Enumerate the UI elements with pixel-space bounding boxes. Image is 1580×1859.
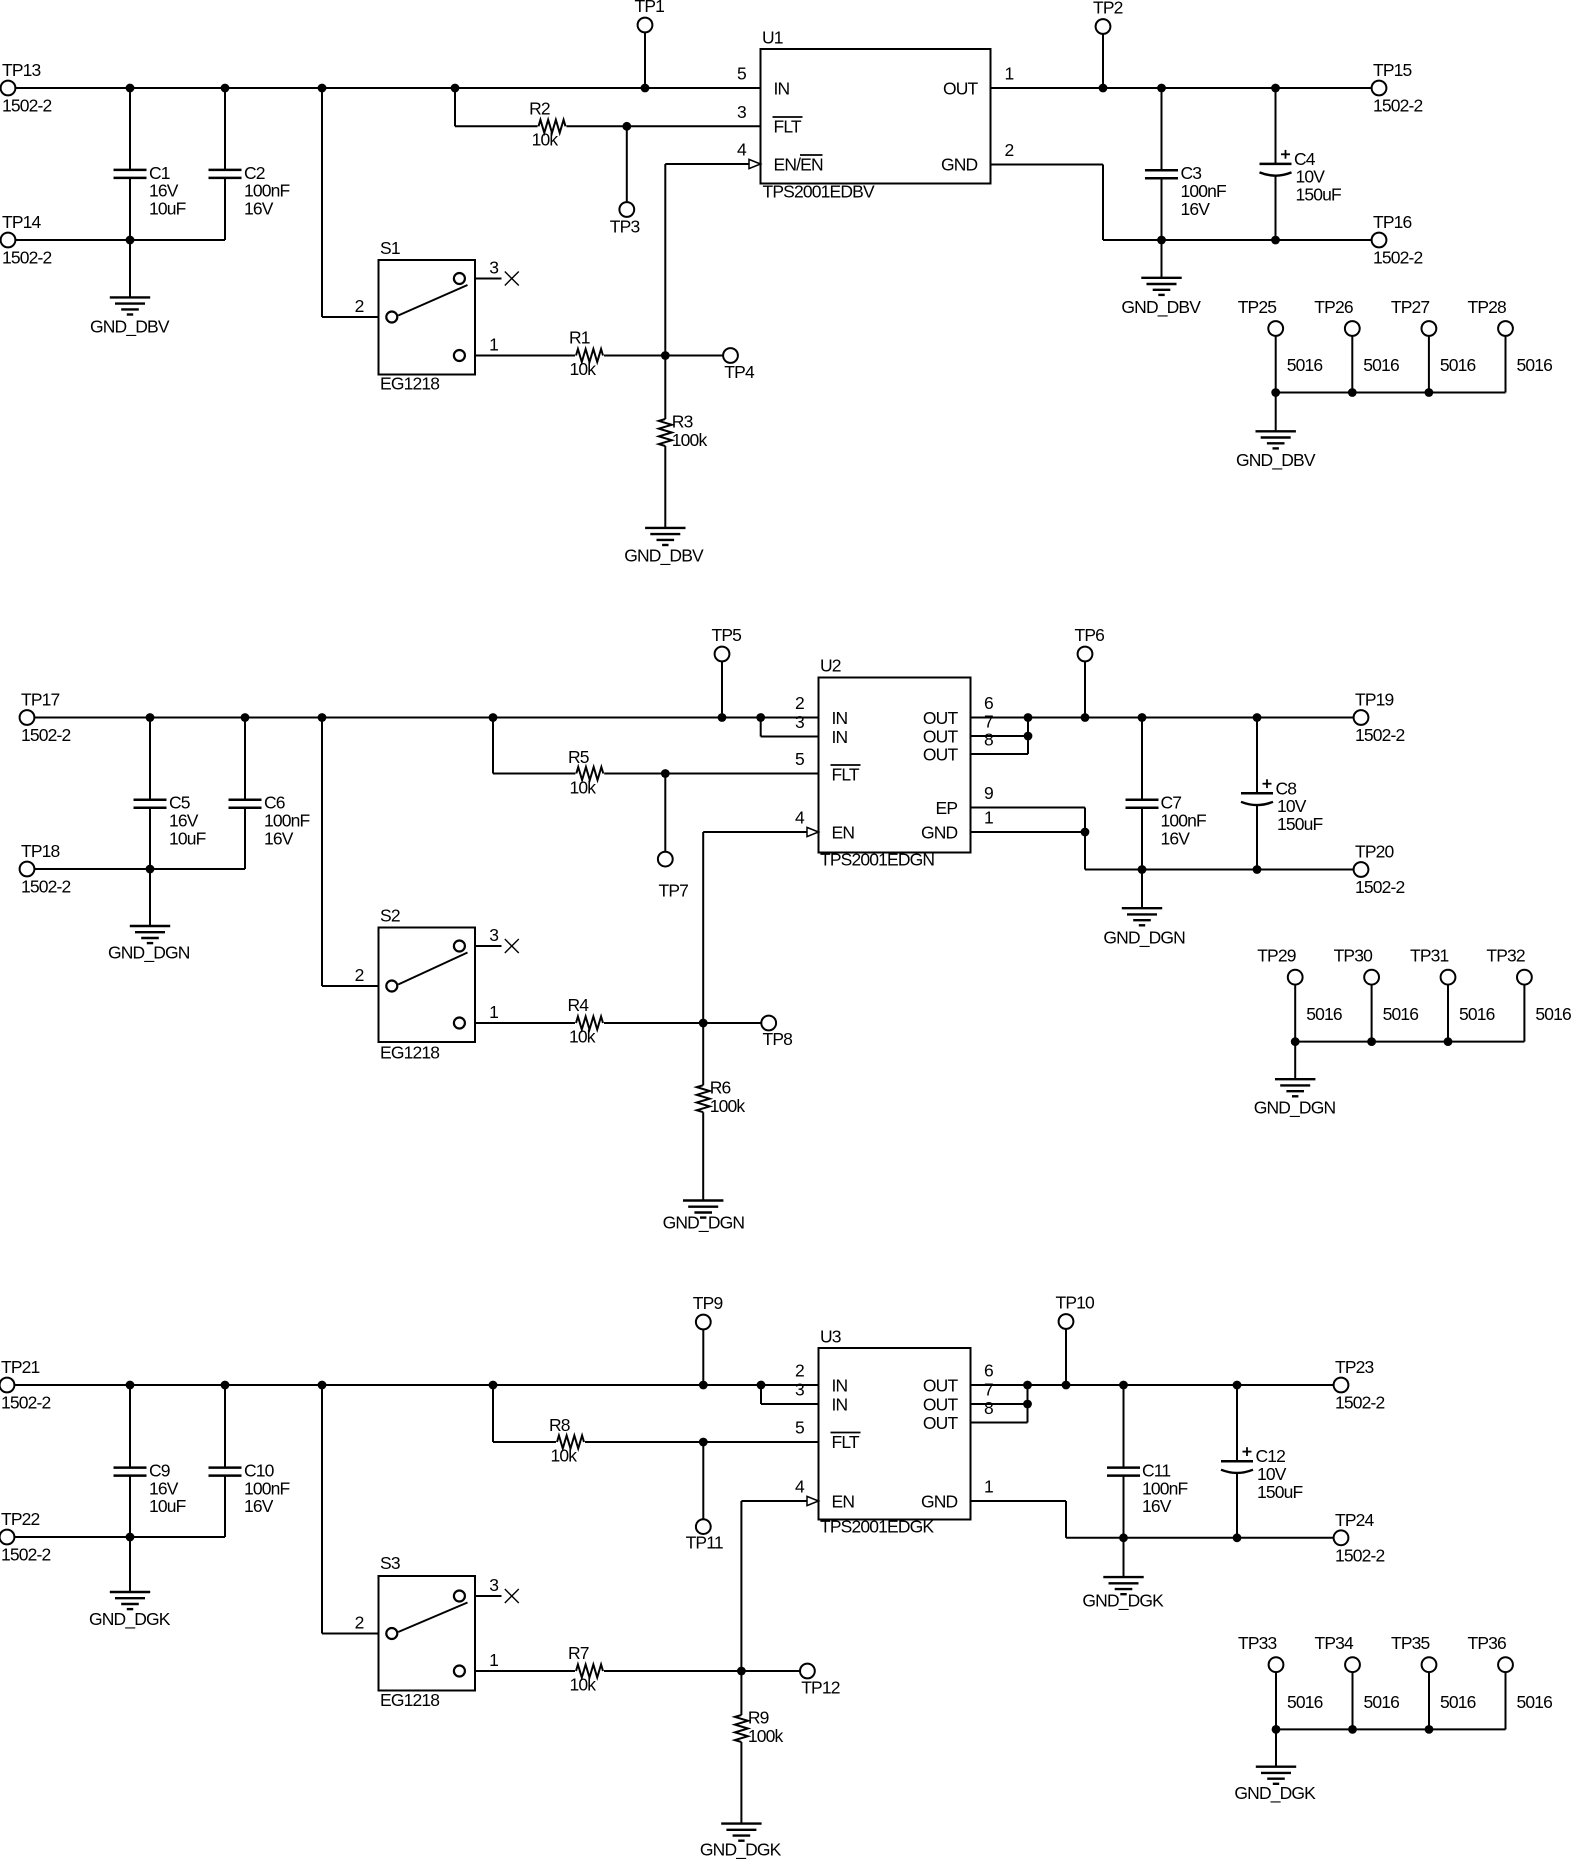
svg-text:4: 4 xyxy=(737,140,747,160)
wire U2 EP pin xyxy=(971,807,1086,809)
test point TP8 xyxy=(761,1016,776,1031)
wire R4 to node EN2 xyxy=(604,1022,703,1024)
wire R9 to GND_DGK xyxy=(740,1742,742,1824)
wire to R8 xyxy=(493,1441,556,1443)
svg-text:R3: R3 xyxy=(672,412,693,432)
wire to GND_DGN under C5 xyxy=(149,869,151,926)
test point TP18 xyxy=(20,862,35,877)
svg-text:2: 2 xyxy=(355,1613,364,1633)
svg-text:R8: R8 xyxy=(549,1415,570,1435)
junction S1 branch xyxy=(318,84,327,93)
no-connect X (S3 pin 3) xyxy=(505,1589,519,1603)
svg-text:6: 6 xyxy=(984,693,993,713)
svg-text:R1: R1 xyxy=(569,328,590,348)
svg-text:TP27: TP27 xyxy=(1391,297,1430,317)
svg-text:5016: 5016 xyxy=(1517,1692,1553,1712)
junction C1 bottom xyxy=(126,236,135,245)
svg-text:10k: 10k xyxy=(569,1027,596,1047)
wire to GND_DBV under C1 xyxy=(129,240,131,297)
junction TP34 rail xyxy=(1348,1725,1357,1734)
svg-text:1502-2: 1502-2 xyxy=(21,877,71,897)
svg-text:5: 5 xyxy=(795,1418,804,1438)
junction TP7 branch xyxy=(661,769,670,778)
wire S3 pin 3 stub xyxy=(475,1595,502,1597)
svg-text:S3: S3 xyxy=(380,1553,400,1573)
input arrow U1 pin 4 xyxy=(749,159,761,168)
wire R3 to GND_DBV xyxy=(664,446,666,528)
junction C9 bottom xyxy=(126,1533,135,1542)
svg-text:TPS2001EDGN: TPS2001EDGN xyxy=(820,850,934,870)
wire to U2 pin 3 xyxy=(761,736,819,738)
resistor R5 xyxy=(576,767,603,780)
svg-text:GND_DBV: GND_DBV xyxy=(624,545,704,566)
wire EN2 vertical xyxy=(702,832,704,1023)
svg-text:1502-2: 1502-2 xyxy=(1335,1393,1385,1413)
svg-text:R5: R5 xyxy=(568,747,589,767)
svg-text:5: 5 xyxy=(737,64,746,84)
wire bottom rail GND_DGN xyxy=(1085,869,1354,871)
wire C3 bottom lead xyxy=(1161,178,1163,240)
svg-text:TP34: TP34 xyxy=(1315,1633,1355,1653)
ground GND_DGN (C5) xyxy=(130,925,170,927)
junction C10 top xyxy=(221,1381,230,1390)
svg-text:TP18: TP18 xyxy=(21,841,60,861)
junction TP26 rail xyxy=(1348,388,1357,397)
capacitor C3 xyxy=(1145,169,1178,172)
test point TP11 xyxy=(696,1519,711,1534)
resistor R1 xyxy=(576,349,603,362)
resistor R6 xyxy=(697,1085,710,1112)
svg-text:100k: 100k xyxy=(672,430,708,450)
junction C4 bottom xyxy=(1271,236,1280,245)
svg-text:5016: 5016 xyxy=(1459,1004,1495,1024)
wire R2 to U1 FLT pin xyxy=(566,125,760,127)
test point TP10 xyxy=(1059,1314,1074,1329)
svg-text:16V: 16V xyxy=(1161,828,1191,848)
junction C8 bottom xyxy=(1253,865,1262,874)
junction TP35 rail xyxy=(1425,1725,1434,1734)
wire to GND_DGK under C11 xyxy=(1123,1538,1125,1577)
wire EN1 to R3 xyxy=(664,356,666,420)
test point TP23 xyxy=(1334,1378,1349,1393)
junction R8 branch xyxy=(489,1381,498,1390)
svg-text:R2: R2 xyxy=(529,98,550,118)
wire C2 top lead xyxy=(224,88,226,170)
svg-text:1502-2: 1502-2 xyxy=(1,1545,51,1565)
wire R1 to node EN1 xyxy=(604,355,665,357)
svg-text:TP17: TP17 xyxy=(21,690,60,710)
ground GND_DGK (C9) xyxy=(110,1591,150,1593)
wire EN3 to R9 xyxy=(740,1671,742,1715)
svg-text:GND_DGN: GND_DGN xyxy=(1103,928,1185,949)
test point TP14 xyxy=(1,233,16,248)
svg-text:16V: 16V xyxy=(244,1496,274,1516)
svg-text:TP11: TP11 xyxy=(686,1533,723,1553)
svg-text:TP13: TP13 xyxy=(2,60,41,80)
svg-text:GND_DGN: GND_DGN xyxy=(1254,1097,1336,1118)
svg-text:GND_DGN: GND_DGN xyxy=(663,1213,745,1234)
wire TP27 drop xyxy=(1428,336,1430,393)
svg-text:EG1218: EG1218 xyxy=(380,1043,439,1063)
svg-text:100k: 100k xyxy=(748,1726,784,1746)
svg-text:100k: 100k xyxy=(710,1096,746,1116)
svg-text:3: 3 xyxy=(489,925,498,945)
overline FLT (U2) xyxy=(831,764,861,766)
svg-text:TP23: TP23 xyxy=(1335,1357,1374,1377)
junction S2 branch xyxy=(318,713,327,722)
wire EN2 to R6 xyxy=(702,1023,704,1085)
svg-text:TP8: TP8 xyxy=(763,1029,793,1049)
test point TP21 xyxy=(0,1378,14,1393)
wire C8 bottom lead xyxy=(1256,806,1258,870)
wire S3 pin1 to R7 xyxy=(475,1670,575,1672)
wire C4 top lead xyxy=(1275,88,1277,164)
svg-text:EN: EN xyxy=(832,823,855,843)
resistor R2 xyxy=(539,120,566,133)
svg-text:S1: S1 xyxy=(380,238,400,258)
test point TP30 xyxy=(1364,970,1379,985)
svg-text:1502-2: 1502-2 xyxy=(1,1393,51,1413)
junction TP1 xyxy=(641,84,650,93)
svg-text:IN: IN xyxy=(832,1376,848,1396)
wire to S1 pin 2 xyxy=(322,316,379,318)
junction C11 top xyxy=(1119,1381,1128,1390)
svg-text:GND_DBV: GND_DBV xyxy=(1236,450,1316,471)
svg-text:EN: EN xyxy=(832,1492,855,1512)
wire C9 bottom lead xyxy=(129,1476,131,1537)
wire R8 to U3 FLT pin xyxy=(585,1441,819,1443)
svg-text:1: 1 xyxy=(984,808,993,828)
ground GND_DBV (R3) xyxy=(645,527,685,529)
svg-text:GND: GND xyxy=(941,155,978,175)
wire TP25-28 rail xyxy=(1276,392,1506,394)
capacitor C1 xyxy=(114,169,147,172)
svg-text:S2: S2 xyxy=(380,906,400,926)
wire TP9 drop xyxy=(702,1329,704,1385)
test point TP9 xyxy=(696,1315,711,1330)
svg-text:1502-2: 1502-2 xyxy=(2,248,52,268)
test point TP4 xyxy=(723,348,738,363)
junction TP31 rail xyxy=(1444,1037,1453,1046)
wire GND vertical (U3) xyxy=(1065,1501,1067,1538)
overline EN (U1) xyxy=(800,154,823,156)
wire U3 GND pin xyxy=(971,1500,1067,1502)
junction pin7 xyxy=(1024,732,1033,741)
svg-text:TP6: TP6 xyxy=(1075,625,1105,645)
IC U3 TPS2001EDGK box xyxy=(819,1348,971,1520)
svg-text:10uF: 10uF xyxy=(169,828,206,848)
wire TP7 drop xyxy=(664,774,666,852)
svg-text:TP33: TP33 xyxy=(1238,1633,1277,1653)
junction C6 top xyxy=(241,713,250,722)
junction pin7/8 top xyxy=(1024,713,1033,722)
svg-text:R9: R9 xyxy=(748,1708,769,1728)
junction TP33 rail xyxy=(1272,1725,1281,1734)
wire C10 top lead xyxy=(224,1385,226,1468)
capacitor C10 xyxy=(209,1466,242,1469)
IC U2 TPS2001EDGN box xyxy=(819,678,971,853)
wire TP11 drop xyxy=(702,1442,704,1519)
switch S1 xyxy=(379,260,476,375)
wire to U3 EN pin xyxy=(741,1500,807,1502)
wire C12 top lead xyxy=(1236,1385,1238,1461)
junction TP11 branch xyxy=(699,1438,708,1447)
svg-text:TP19: TP19 xyxy=(1355,690,1394,710)
svg-text:16V: 16V xyxy=(244,199,274,219)
svg-text:10k: 10k xyxy=(570,778,597,798)
svg-text:OUT: OUT xyxy=(923,745,959,765)
svg-text:TP9: TP9 xyxy=(693,1293,723,1313)
wire to TP8 xyxy=(703,1022,761,1024)
junction U2 pin3 branch xyxy=(756,713,765,722)
wire rail to GND_DGN xyxy=(1294,1042,1296,1080)
wire TP25 drop xyxy=(1275,336,1277,393)
svg-text:U3: U3 xyxy=(820,1327,841,1347)
wire EP/GND vertical xyxy=(1084,808,1086,870)
svg-text:GND_DGK: GND_DGK xyxy=(1234,1783,1316,1804)
junction C12 bottom xyxy=(1233,1533,1242,1542)
test point TP5 xyxy=(715,647,730,662)
wire C7 top lead xyxy=(1141,718,1143,800)
test point TP1 xyxy=(638,18,653,33)
wire TP28 drop xyxy=(1505,336,1507,393)
junction node EN1 xyxy=(661,351,670,360)
svg-text:1502-2: 1502-2 xyxy=(2,96,52,116)
svg-text:EN/EN: EN/EN xyxy=(774,155,823,175)
svg-text:TP22: TP22 xyxy=(1,1509,40,1529)
svg-text:IN: IN xyxy=(832,727,848,747)
wire TP34 drop xyxy=(1352,1672,1354,1729)
junction C4 top xyxy=(1271,84,1280,93)
capacitor C11 xyxy=(1107,1466,1140,1469)
svg-text:TP15: TP15 xyxy=(1373,60,1412,80)
junction C5 bottom xyxy=(146,865,155,874)
test point TP28 xyxy=(1498,321,1513,336)
wire to U1 EN pin xyxy=(665,163,749,165)
junction C1 top xyxy=(126,84,135,93)
test point TP32 xyxy=(1517,970,1532,985)
test point TP25 xyxy=(1268,321,1283,336)
wire U3 pin3 branch vertical xyxy=(760,1385,762,1404)
junction TP27 rail xyxy=(1425,388,1434,397)
svg-text:TP7: TP7 xyxy=(659,880,689,900)
wire U1 GND pin xyxy=(991,164,1104,166)
test point TP3 xyxy=(619,202,634,217)
resistor R7 xyxy=(576,1665,603,1678)
test point TP13 xyxy=(1,81,16,96)
svg-text:TP10: TP10 xyxy=(1056,1293,1096,1313)
svg-text:TP4: TP4 xyxy=(724,362,755,382)
junction TP25 rail xyxy=(1271,388,1280,397)
junction C5 top xyxy=(146,713,155,722)
svg-text:TP1: TP1 xyxy=(635,0,665,16)
svg-text:OUT: OUT xyxy=(923,1376,959,1396)
svg-text:FLT: FLT xyxy=(774,116,802,136)
svg-text:10k: 10k xyxy=(551,1446,578,1466)
wire C8 top lead xyxy=(1256,718,1258,794)
resistor R4 xyxy=(576,1017,603,1030)
svg-text:5016: 5016 xyxy=(1306,1004,1342,1024)
wire C6 bottom lead xyxy=(244,808,246,869)
capacitor C6 xyxy=(229,798,262,801)
svg-text:5016: 5016 xyxy=(1287,1692,1323,1712)
svg-text:5016: 5016 xyxy=(1440,1692,1476,1712)
test point TP7 xyxy=(658,852,673,867)
ground GND_DGK (TP33 row) xyxy=(1256,1765,1296,1767)
no-connect X (S1 pin 3) xyxy=(505,272,519,286)
wire C1 bottom lead xyxy=(129,178,131,240)
svg-text:TP21: TP21 xyxy=(1,1357,40,1377)
svg-text:TP25: TP25 xyxy=(1238,297,1277,317)
overline FLT (U1) xyxy=(773,116,803,118)
switch S3 xyxy=(379,1576,476,1691)
svg-text:3: 3 xyxy=(489,1575,498,1595)
svg-text:OUT: OUT xyxy=(923,1395,959,1415)
svg-text:U1: U1 xyxy=(762,28,783,48)
ground GND_DGN (TP29 row) xyxy=(1275,1078,1315,1080)
svg-text:OUT: OUT xyxy=(923,1413,959,1433)
svg-text:TP26: TP26 xyxy=(1314,297,1353,317)
ground GND_DGN (C7) xyxy=(1122,907,1162,909)
svg-text:TP32: TP32 xyxy=(1486,946,1525,966)
svg-text:8: 8 xyxy=(984,1398,993,1418)
wire net OUT3 xyxy=(971,1384,1334,1386)
resistor R3 xyxy=(659,419,672,446)
junction U3 pin3 branch xyxy=(757,1381,766,1390)
wire EN3 vertical xyxy=(740,1501,742,1671)
svg-text:GND_DGK: GND_DGK xyxy=(1082,1591,1164,1612)
test point TP16 xyxy=(1372,233,1387,248)
wire pin7/8 vertical xyxy=(1027,718,1029,755)
wire S2 pin 3 stub xyxy=(475,945,502,947)
svg-text:1502-2: 1502-2 xyxy=(1373,248,1423,268)
wire to GND_DGK under C9 xyxy=(129,1537,131,1592)
svg-text:5016: 5016 xyxy=(1517,355,1553,375)
junction TP5 xyxy=(718,713,727,722)
wire to TP12 xyxy=(741,1670,800,1672)
svg-text:2: 2 xyxy=(795,693,804,713)
ground GND_DGN (R6) xyxy=(683,1199,723,1201)
wire R5 to U2 FLT pin xyxy=(604,773,818,775)
svg-text:GND_DGK: GND_DGK xyxy=(89,1609,171,1630)
junction pin7/8 top (U3) xyxy=(1023,1381,1032,1390)
junction TP10 xyxy=(1062,1381,1071,1390)
svg-text:5016: 5016 xyxy=(1287,355,1323,375)
svg-text:150uF: 150uF xyxy=(1277,814,1323,834)
junction C9 top xyxy=(126,1381,135,1390)
wire R7 to node EN3 xyxy=(604,1670,741,1672)
ground GND_DGK (C11) xyxy=(1103,1576,1143,1578)
svg-text:TP35: TP35 xyxy=(1391,1633,1430,1653)
test point TP26 xyxy=(1345,321,1360,336)
capacitor C2 xyxy=(209,169,242,172)
svg-text:4: 4 xyxy=(795,1477,805,1497)
svg-text:EP: EP xyxy=(936,798,958,818)
svg-text:OUT: OUT xyxy=(923,708,959,728)
capacitor C5 xyxy=(134,798,167,801)
svg-text:1502-2: 1502-2 xyxy=(1355,725,1405,745)
svg-text:1502-2: 1502-2 xyxy=(21,725,71,745)
wire TP10 drop xyxy=(1065,1329,1067,1385)
svg-text:U2: U2 xyxy=(820,656,841,676)
resistor R9 xyxy=(735,1715,748,1742)
test point TP33 xyxy=(1269,1657,1284,1672)
wire to S2 pin 2 xyxy=(322,985,379,987)
wire U3 pin 7 xyxy=(971,1403,1028,1405)
svg-text:TP14: TP14 xyxy=(2,212,42,232)
svg-text:3: 3 xyxy=(795,1380,804,1400)
svg-text:TPS2001EDBV: TPS2001EDBV xyxy=(763,182,875,202)
test point TP2 xyxy=(1096,19,1111,34)
wire C6 top lead xyxy=(244,718,246,800)
wire TP26 drop xyxy=(1351,336,1353,393)
svg-text:TP29: TP29 xyxy=(1257,946,1296,966)
wire to U2 EN pin xyxy=(703,831,807,833)
svg-text:3: 3 xyxy=(737,102,746,122)
svg-text:16V: 16V xyxy=(1181,199,1211,219)
junction pin7 (U3) xyxy=(1023,1400,1032,1409)
wire C11 top lead xyxy=(1123,1385,1125,1468)
input arrow U2 pin 4 xyxy=(807,827,819,836)
op-amp-style IC U1 TPS2001EDBV box xyxy=(761,49,991,184)
test point TP24 xyxy=(1334,1530,1349,1545)
wire C1 top lead xyxy=(129,88,131,170)
junction TP29 rail xyxy=(1291,1037,1300,1046)
wire U2 pin 8 xyxy=(971,753,1029,755)
wire TP1 drop xyxy=(644,32,646,88)
wire TP36 drop xyxy=(1505,1672,1507,1729)
svg-text:TP3: TP3 xyxy=(610,216,640,236)
switch S2 xyxy=(379,928,476,1043)
svg-text:IN: IN xyxy=(832,708,848,728)
overline FLT (U3) xyxy=(831,1432,861,1434)
wire C5 top lead xyxy=(149,718,151,800)
svg-text:GND_DGN: GND_DGN xyxy=(108,943,190,964)
ground GND_DGK (R9) xyxy=(721,1822,761,1824)
wire C2 bottom lead xyxy=(224,178,226,240)
junction EP/GND xyxy=(1081,828,1090,837)
svg-text:TP28: TP28 xyxy=(1468,297,1507,317)
svg-text:1: 1 xyxy=(489,1002,498,1022)
svg-text:R4: R4 xyxy=(568,995,590,1015)
svg-text:6: 6 xyxy=(984,1361,993,1381)
svg-text:5016: 5016 xyxy=(1440,355,1476,375)
test point TP15 xyxy=(1372,81,1387,96)
junction TP9 xyxy=(699,1381,708,1390)
wire U3 pin 8 xyxy=(971,1422,1028,1424)
ground GND_DBV (TP25 row) xyxy=(1256,430,1296,432)
junction C3 bottom xyxy=(1157,236,1166,245)
wire C10 bottom lead xyxy=(224,1476,226,1537)
wire TP35 drop xyxy=(1428,1672,1430,1729)
wire C7 bottom lead xyxy=(1141,808,1143,870)
wire to TP4 xyxy=(665,355,723,357)
wire bottom rail GND_DGK xyxy=(1066,1537,1334,1539)
wire TP33-36 rail xyxy=(1276,1728,1506,1730)
wire U2 pin3 branch vertical xyxy=(760,718,762,737)
svg-text:5016: 5016 xyxy=(1383,1004,1419,1024)
wire S2 pin1 to R4 xyxy=(475,1022,575,1024)
junction C11 bottom xyxy=(1119,1533,1128,1542)
ground GND_DBV (C1) xyxy=(110,296,150,298)
test point TP35 xyxy=(1422,1657,1437,1672)
input arrow U3 pin 4 xyxy=(807,1496,819,1505)
junction node EN2 xyxy=(699,1019,708,1028)
svg-text:5016: 5016 xyxy=(1364,1692,1400,1712)
wire net IN3 main xyxy=(14,1384,818,1386)
junction C7 bottom xyxy=(1138,865,1147,874)
svg-text:OUT: OUT xyxy=(923,727,959,747)
